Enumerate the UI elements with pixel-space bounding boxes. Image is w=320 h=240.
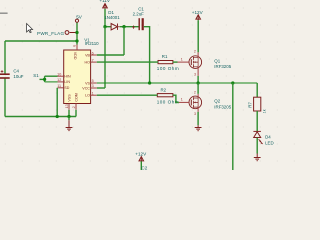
resistor R1 [157,54,179,71]
wire VSS down [68,110,70,117]
svg-text:PWR_FLAG: PWR_FLAG [37,31,64,36]
LED D4 [253,131,273,145]
wire C1 right to VS column [144,27,150,83]
wire to HIN [45,75,58,77]
junction D1 cathode / VB [122,25,125,28]
wire D1 cathode to C1 [120,26,139,28]
power symbol +12V bottom [135,151,147,161]
svg-text:C2: C2 [141,165,147,170]
svg-text:R2: R2 [161,88,167,93]
ground under Q2 [195,125,202,131]
wire R1 to Q1 gate [173,61,178,63]
svg-text:2: 2 [72,106,76,108]
junction 5V/VDD corner [75,39,78,42]
power symbol +12V top [192,10,204,20]
svg-text:1: 1 [92,91,94,95]
svg-text:IRF3205: IRF3205 [214,104,231,109]
svg-text:HO: HO [85,60,91,64]
wire S1 vertical split [44,76,46,82]
wire COM down [75,110,77,117]
svg-text:COM: COM [74,93,78,101]
svg-text:6: 6 [92,51,94,55]
svg-text:9: 9 [72,45,76,47]
wire VS to R7 [256,83,258,97]
wire VCC vertical [104,27,106,88]
wire +11V stem [104,9,106,27]
pin 1 LO [85,91,97,97]
svg-text:VB: VB [85,53,90,57]
wire R2 to Q2 gate jog [173,95,179,102]
svg-text:1k: 1k [262,109,266,113]
pin 7 HO [85,58,97,64]
ground under D4 [254,154,261,161]
mouse cursor [27,24,33,33]
resistor R7 [248,97,267,113]
wire +12V bottom stem [140,161,142,170]
pin 9 VDD top [72,45,77,60]
wire 5V rail horizontal to VDD column [5,40,77,42]
ground under chip [66,117,73,131]
svg-text:LED: LED [265,141,274,146]
transistor Q2 IRF3205 [179,90,232,116]
junction +11V / D1 anode [103,25,106,28]
label S1 [33,73,39,78]
resistor R2 [157,88,179,105]
svg-text:VCC: VCC [82,86,90,90]
wire Q2 drain up [197,83,199,94]
svg-text:Q1: Q1 [214,58,220,63]
svg-text:3: 3 [194,112,196,116]
pin 2 COM bottom [72,93,79,110]
wire +12V to Q1 drain [197,20,199,52]
transistor Q1 IRF3205 [178,49,232,76]
svg-text:IR2110: IR2110 [85,41,99,46]
wire VB horizontal [97,54,124,56]
svg-text:Q2: Q2 [214,99,220,104]
diode D1 1N4001 [104,10,120,30]
svg-text:R7: R7 [248,102,253,108]
svg-text:LIN: LIN [64,80,70,84]
svg-text:+12V: +12V [135,151,147,156]
wire D4 to ground [256,138,258,154]
wire to LIN [45,81,58,83]
junction C1/VS [148,81,151,84]
wire SD down [56,88,58,117]
junction SD/gnd bus [56,115,59,118]
wire Q2 source down [197,112,199,125]
svg-text:VDD: VDD [73,52,77,60]
svg-text:3: 3 [92,84,94,88]
svg-text:11: 11 [57,84,61,88]
junction VS / output column [231,81,234,84]
svg-text:IRF3205: IRF3205 [214,64,231,69]
power symbol 5V [75,14,82,22]
pin 3 VCC [82,84,96,90]
pin 12 LIN [57,78,70,84]
svg-text:LO: LO [85,94,90,98]
svg-text:S1: S1 [33,73,39,78]
IC V1 IR2110 body [64,38,99,104]
junction VSS/gnd bus [67,115,70,118]
wire C4 bottom vertical [4,78,6,117]
svg-text:13: 13 [65,104,69,108]
svg-text:7: 7 [92,58,94,62]
svg-text:2.2uF: 2.2uF [133,12,145,17]
svg-text:1N4001: 1N4001 [104,15,120,20]
wire VS rail [97,82,257,84]
pin 5 VS [85,79,97,85]
svg-text:C4: C4 [13,68,19,73]
wire output column down [232,83,234,170]
svg-text:10uF: 10uF [13,74,23,79]
svg-text:+11V: +11V [99,0,110,3]
svg-text:3: 3 [194,72,196,76]
power flag PWR_FLAG [37,31,77,37]
junction S1 [43,78,46,81]
wire VB vertical [123,27,125,55]
wire R7 to D4 [256,111,258,131]
capacitor C1 [132,7,144,31]
svg-text:1: 1 [181,98,183,102]
power symbol +11V [99,0,110,9]
svg-text:VS: VS [85,81,90,85]
svg-text:2: 2 [194,90,196,94]
svg-text:VSS: VSS [67,94,71,102]
pin 6 VB [85,51,97,57]
svg-text:12: 12 [57,78,61,82]
wire LO to R2 [97,94,158,96]
pin 10 HIN [57,72,71,78]
wire C4 top vertical [4,41,6,74]
svg-text:R1: R1 [162,54,168,59]
wire HO to R1 [97,61,158,63]
junction PWR_FLAG tie [75,31,78,34]
junction Q1 source / Q2 drain [196,81,199,84]
svg-text:HIN: HIN [64,75,71,79]
svg-text:+12V: +12V [192,10,204,15]
wire 5V vertical [76,22,78,44]
svg-text:SD: SD [64,86,69,90]
pin 11 SD [57,84,70,90]
pin 13 VSS bottom [65,94,72,110]
wire VCC horizontal [97,87,105,89]
svg-text:10: 10 [57,72,61,76]
svg-text:1: 1 [181,57,183,61]
svg-text:D4: D4 [265,135,271,140]
wire Q1 source down [197,76,199,83]
svg-text:2: 2 [194,49,196,53]
svg-text:100 Ohm: 100 Ohm [157,66,179,71]
capacitor C4 [0,68,24,79]
wire S1 to junction [40,78,45,80]
svg-text:5: 5 [92,79,94,83]
wire ground bus horizontal [5,116,76,118]
